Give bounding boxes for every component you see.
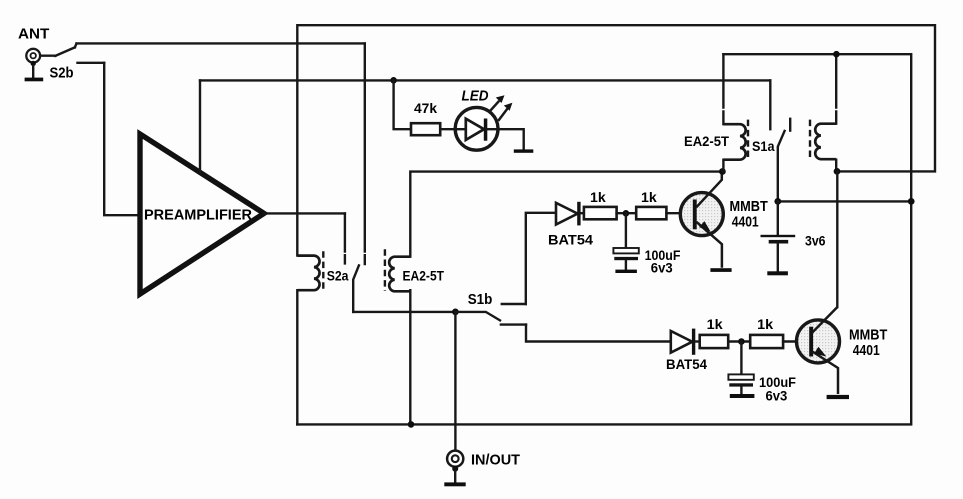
svg-text:PREAMPLIFIER: PREAMPLIFIER bbox=[144, 207, 252, 224]
wire (S1b upper throw up to BAT54 branch 1) bbox=[526, 213, 556, 304]
svg-text:BAT54: BAT54 bbox=[666, 356, 707, 372]
wire (L4 bottom to collector node) bbox=[835, 160, 837, 172]
node (cap 2 tee) bbox=[738, 338, 745, 345]
connector J1 ANT bbox=[26, 49, 40, 78]
wire (L4 feed top to supply rail) bbox=[835, 54, 837, 124]
wire (Q2 collector up to node) bbox=[836, 171, 838, 307]
resistor R4 1k (branch 2 left) bbox=[700, 335, 729, 348]
diode D3 BAT54 (branch 2) bbox=[671, 329, 700, 355]
ground (Q2 emitter) bbox=[827, 395, 849, 399]
relay core (upper EA2-5T) bbox=[747, 120, 749, 159]
node (L2 to bottom rail) bbox=[408, 421, 415, 428]
resistor R5 1k (branch 2 right) bbox=[750, 335, 783, 348]
wire (S2a pole to S1b pole) bbox=[353, 311, 455, 313]
diode D2 BAT54 (branch 1) bbox=[556, 202, 584, 226]
node (cap 1 tee) bbox=[623, 210, 630, 217]
transistor Q1 MMBT4401 bbox=[680, 171, 723, 267]
wire (S2a coil bottom to bottom rail) bbox=[296, 290, 298, 424]
inductor L2 relay coil EA2-5T bbox=[389, 257, 410, 292]
node (battery top) bbox=[774, 198, 781, 205]
ground (C1) bbox=[615, 270, 637, 273]
svg-text:1k: 1k bbox=[707, 316, 723, 332]
svg-text:S2b: S2b bbox=[50, 64, 74, 81]
ground (C2) bbox=[730, 394, 755, 398]
svg-text:1k: 1k bbox=[757, 316, 773, 332]
ground (IN/OUT shield) bbox=[444, 482, 465, 486]
ground (ANT shield) bbox=[25, 78, 44, 82]
wire (L3 feed top) bbox=[722, 54, 724, 124]
connector J2 IN/OUT bbox=[447, 451, 463, 483]
svg-text:3v6: 3v6 bbox=[805, 233, 826, 249]
switch S1b bbox=[455, 304, 526, 325]
relay core (EA2-5T lower) bbox=[384, 249, 386, 291]
ground (battery) bbox=[767, 271, 788, 275]
node (Q1 collector / L1coil junction) bbox=[719, 168, 726, 175]
transistor Q2 MMBT4401 bbox=[797, 307, 840, 394]
inductor L3 relay coil EA2-5T (upper) bbox=[723, 124, 745, 159]
svg-text:1k: 1k bbox=[641, 189, 657, 205]
wire (R4 to node) bbox=[728, 340, 750, 342]
wire (47k branch drop) bbox=[394, 80, 411, 129]
wire (LED cathode to ground) bbox=[498, 129, 524, 149]
wire (S2b lower throw down to preamp input) bbox=[104, 63, 141, 215]
capacitor C1 100uF bbox=[613, 213, 638, 269]
wire (R3 to Q1 base) bbox=[666, 212, 693, 214]
svg-text:4401: 4401 bbox=[853, 342, 880, 359]
inductor L4 relay coil (right) bbox=[815, 124, 836, 159]
resistor 47k bbox=[411, 123, 440, 135]
wire (R5 to Q2 base) bbox=[783, 340, 809, 342]
ground (LED) bbox=[514, 149, 534, 152]
wire (L2 top feed up and across to Q1 collector node) bbox=[410, 172, 722, 257]
svg-text:IN/OUT: IN/OUT bbox=[471, 451, 520, 468]
inductor L1 relay coil S2a bbox=[298, 256, 320, 291]
wire (x365 vertical to S2a right contact) bbox=[364, 43, 366, 264]
svg-text:LED: LED bbox=[462, 88, 489, 105]
wire (L3 bottom to node) bbox=[722, 160, 724, 172]
relay core (right) bbox=[809, 120, 811, 159]
node (L4 top on supply rail) bbox=[833, 51, 840, 58]
resistor R2 1k (branch 1 left) bbox=[584, 207, 617, 219]
switch S2b bbox=[55, 44, 104, 63]
switch S1a bbox=[770, 80, 790, 201]
node (S1b pole tee) bbox=[452, 309, 459, 316]
op-amp U1 PREAMPLIFIER bbox=[140, 134, 264, 294]
wire (S1b lower throw to BAT54 branch 2) bbox=[526, 325, 671, 342]
wire (L2 bottom feed down to bottom rail) bbox=[409, 290, 411, 424]
svg-text:4401: 4401 bbox=[732, 214, 759, 231]
svg-text:6v3: 6v3 bbox=[651, 260, 673, 276]
svg-text:ANT: ANT bbox=[18, 26, 49, 43]
node (47k tee) bbox=[390, 77, 397, 84]
wire (S1b pole down to IN/OUT) bbox=[454, 312, 456, 451]
battery BT1 3v6 bbox=[761, 201, 796, 271]
capacitor C2 100uF bbox=[728, 342, 753, 395]
svg-text:S1a: S1a bbox=[752, 138, 775, 154]
ground (Q1 emitter) bbox=[710, 268, 731, 272]
wire (bottom rail and right rail up to relay supply) bbox=[297, 54, 911, 424]
wire (S2b top throw to x365 drop) bbox=[77, 42, 365, 44]
wire (preamp power tap up) bbox=[199, 80, 201, 172]
svg-text:S2a: S2a bbox=[327, 268, 349, 284]
node (battery rail to right rail) bbox=[908, 198, 915, 205]
svg-text:EA2-5T: EA2-5T bbox=[684, 134, 730, 149]
svg-text:1k: 1k bbox=[590, 189, 606, 205]
wire (47k to LED) bbox=[440, 128, 465, 130]
LED D1 bbox=[455, 95, 512, 150]
wire (ANT center to switch pivot) bbox=[40, 55, 55, 57]
svg-text:6v3: 6v3 bbox=[766, 387, 788, 403]
node (L4 bottom / Q2 collector junction) bbox=[834, 168, 841, 175]
wire (R2 to node) bbox=[617, 212, 637, 214]
wire (left rail: box top and down to S2a coil) bbox=[297, 25, 935, 255]
svg-text:47k: 47k bbox=[414, 100, 437, 116]
wire (preamp output to S2a left contact) bbox=[264, 212, 345, 214]
svg-text:S1b: S1b bbox=[468, 292, 493, 308]
switch S2a bbox=[353, 265, 359, 312]
resistor R3 1k (branch 1 right) bbox=[636, 207, 666, 219]
wire (battery rail from S1a pole to right rail) bbox=[778, 200, 911, 202]
svg-text:EA2-5T: EA2-5T bbox=[403, 269, 445, 284]
relay core (S2a) bbox=[322, 251, 324, 290]
svg-text:BAT54: BAT54 bbox=[548, 231, 593, 247]
wire (top feed rail y80 to S1a) bbox=[200, 79, 770, 81]
